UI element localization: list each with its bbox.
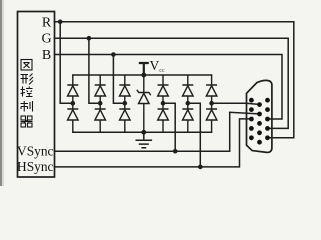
svg-text:R: R [42,15,52,30]
page background [0,0,321,186]
node D2 mid [98,101,103,106]
wire HSync to riser and connector [55,119,252,167]
diode pair D3 (B clamp) [119,75,130,132]
wire B drop to clamp D3 mid node [113,55,124,104]
node D1 mid [71,101,76,106]
connector pins left column 1-5 [249,98,254,140]
diode pair D6 (DDC clamp) [206,75,217,132]
wire clamp D6 mid node to connector pin [212,103,260,104]
Vcc rail [73,74,212,76]
wire R from box to right edge and down to connector [55,22,294,138]
connector pins right column 11-15 [265,98,270,140]
ground [136,132,153,148]
node D4 mid [161,101,166,106]
VGA connector J1 shell [247,80,272,152]
node D3 mid [123,101,128,106]
node D6 mid [209,101,214,106]
Vcc terminal [140,63,148,75]
svg-text:G: G [41,32,51,47]
diode pair D4 (VSync clamp) [158,75,169,132]
ground rail [73,131,212,133]
node Vcc rail [141,73,146,78]
zener diode Z1 across rails [137,75,151,132]
hanzi 形 [21,74,34,85]
wire clamp D4 mid node down to VSync [163,103,175,151]
wire clamp D5 mid node down to HSync [188,103,201,167]
node ground rail [141,130,146,135]
diode pair D2 (G clamp) [95,75,106,132]
node B tap [111,52,116,57]
wire B [55,55,283,120]
hanzi 控 [21,87,33,97]
diode pair D1 (R clamp) [67,75,78,132]
svg-text:VSync: VSync [17,144,54,159]
node VSync tap [173,149,178,154]
node R tap [58,20,63,25]
svg-text:B: B [42,48,51,63]
graphics controller box U1 [18,12,55,178]
node HSync tap [198,165,203,170]
wire R drop to clamp D1 mid node [60,22,73,103]
hanzi 器 [21,116,33,127]
svg-text:HSync: HSync [17,159,54,174]
connector pins middle column 6-10 [257,102,262,144]
wire G drop to clamp D2 mid node [89,38,100,103]
wire G [55,38,289,128]
node D5 mid [186,101,191,106]
hanzi 图 (drawn strokes) [21,60,32,71]
node G tap [87,36,92,41]
wire VSync to riser and connector [55,112,260,151]
hanzi 制 [21,101,33,112]
diode pair D5 (HSync clamp) [182,75,193,132]
scan gutter left edge [0,0,2,186]
